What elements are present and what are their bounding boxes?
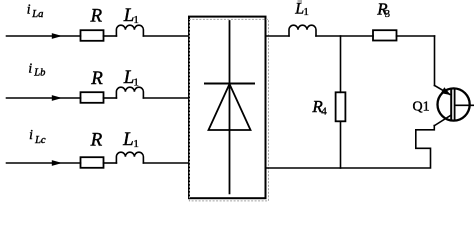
svg-text:R: R (90, 130, 103, 151)
diode vertical line (229, 21, 231, 193)
wire collector vertical (434, 36, 436, 86)
wire R4 bottom lead (340, 121, 342, 168)
svg-text:Q1: Q1 (413, 99, 430, 114)
resistor R row2 (81, 92, 104, 103)
wire L1 to bridge row1 (143, 35, 189, 37)
wire phase B input (7, 97, 81, 99)
resistor R3 (373, 30, 397, 40)
transistor Q1 bar right (454, 89, 456, 120)
transistor Q1 collector arrowhead (441, 87, 451, 95)
transistor Q1 gate lead (456, 104, 474, 106)
arrow current direction iLb (52, 95, 62, 101)
svg-text:3: 3 (385, 9, 390, 20)
svg-text:i: i (28, 61, 32, 76)
arrow current direction iLc (52, 160, 62, 166)
wire bridge output to L1 (266, 35, 290, 37)
wire L1 to bridge row3 (143, 162, 189, 164)
inductor L1 row1 (116, 25, 143, 36)
svg-text:R: R (90, 68, 103, 89)
transistor Q1 bar left (450, 89, 452, 120)
transistor Q1 emitter diagonal (434, 115, 451, 126)
transistor Q1 circle (438, 88, 470, 120)
wire R4 top lead (340, 36, 342, 92)
wire emitter staircase to bottom rail (266, 126, 435, 169)
wire R to L1 row3 (104, 162, 117, 164)
resistor R4 (336, 92, 346, 121)
svg-text:1: 1 (133, 14, 139, 26)
svg-text:Lb: Lb (33, 68, 45, 79)
rectifier bridge box (189, 17, 266, 199)
svg-text:R: R (90, 5, 103, 26)
svg-text:i: i (29, 127, 33, 142)
wire phase A input (7, 35, 81, 37)
arrow current direction iLa (52, 33, 62, 39)
svg-text:La: La (31, 9, 43, 20)
svg-text:1: 1 (133, 138, 139, 150)
diode cathode bar (205, 83, 254, 85)
inductor L1 row2 (116, 87, 143, 98)
svg-text:1: 1 (303, 6, 309, 18)
wire R to L1 row2 (104, 97, 117, 99)
wire L1 to R3 with node for R4 (316, 35, 373, 37)
wire R to L1 row1 (104, 35, 117, 37)
transistor Q1 collector diagonal (435, 86, 450, 95)
svg-text:4: 4 (321, 106, 327, 118)
wire phase C input (7, 162, 81, 164)
artifact dot above L1 output (298, 0, 303, 3)
svg-text:L: L (122, 129, 134, 150)
wire R3 to collector corner (397, 35, 435, 37)
resistor R row1 (81, 30, 104, 41)
wire L1 to bridge row2 (143, 97, 189, 99)
inductor L1 row3 (116, 152, 143, 163)
inductor L1 output (289, 25, 316, 36)
svg-text:1: 1 (133, 76, 139, 88)
resistor R row3 (81, 157, 104, 168)
svg-text:Lc: Lc (34, 135, 46, 146)
svg-text:i: i (27, 1, 31, 16)
rectifier box dotted shadow (189, 19, 268, 201)
diode triangle (209, 84, 251, 130)
